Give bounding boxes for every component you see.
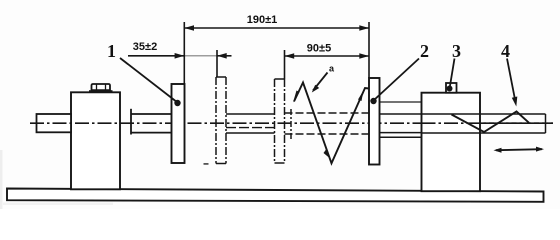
zigzag arrowhead near valley [324,150,330,159]
sensor square on right block [446,83,457,93]
wire shaft bottom edge disc4-to-block [380,132,423,134]
dim 190 line [184,27,369,29]
svg-text:2: 2 [420,41,429,61]
dim 90 line [285,55,370,57]
sensor dot [447,86,453,92]
nut flange on left block [89,90,113,93]
wire shaft top edge disc3-to-disc4 (dashed) [285,112,370,114]
centerline through block [422,122,554,124]
dim 190 extension line left [183,22,185,84]
disc 3 (phantom dash-dot edges) [275,78,285,80]
artifact dash [204,163,209,165]
leader 2 [374,59,420,101]
spring end face dash line [290,109,292,141]
wire shaft bottom edge block-to-disc1 [131,132,172,134]
coupling sleeve disc4-to-right-block [380,101,423,103]
wire shaft inner line disc2-to-disc3 [226,127,275,129]
wire shaft top edge disc2-to-disc3 [226,113,275,115]
shaft right end cap [545,114,547,133]
wire shaft bottom edge disc2-to-disc3 [226,132,275,134]
shaft centerline [30,122,553,124]
dim 90 extension line (disc3) [284,50,286,79]
wire shaft top edge disc4-to-block [380,113,423,115]
zigzag arrowhead near disc3 [293,91,300,103]
base plate [7,189,544,202]
disc 2 (phantom dash-dot edges) [216,76,226,78]
dim 35 extension line (disc2) [216,50,218,77]
shaft kink (runout) line [452,112,530,133]
shaft collar end face [130,109,132,135]
nut hex body [92,84,111,90]
shaft left stub [37,114,72,132]
wire shaft top edge block-to-disc1 [131,113,172,115]
svg-text:a: a [329,64,335,74]
disc 4 [369,78,380,165]
nut facet lines [96,84,98,90]
leader 4 [507,59,516,103]
disc 1 [172,84,185,163]
shaft lines through right block [422,113,546,115]
dim 35 line (outside arrows) [128,55,184,57]
svg-text:3: 3 [452,41,461,61]
svg-text:1: 1 [107,41,116,61]
double arrow axial movement [494,147,545,153]
left bearing block [71,92,120,189]
right bearing block [422,93,481,192]
leader 1 [120,58,178,103]
leader a [313,73,328,91]
spring zigzag between disc3 and disc4 [294,83,369,164]
zigzag arrowhead near disc4 [358,91,364,102]
scan smudge bottom-left [0,150,113,209]
svg-text:190±1: 190±1 [247,14,278,26]
wire shaft bottom edge disc3-to-disc4 (dashed) [285,133,370,135]
svg-text:90±5: 90±5 [307,43,331,55]
leader 3 [450,59,455,88]
svg-text:4: 4 [501,41,510,61]
dim 190 extension line right [368,22,370,78]
svg-text:35±2: 35±2 [133,41,157,53]
